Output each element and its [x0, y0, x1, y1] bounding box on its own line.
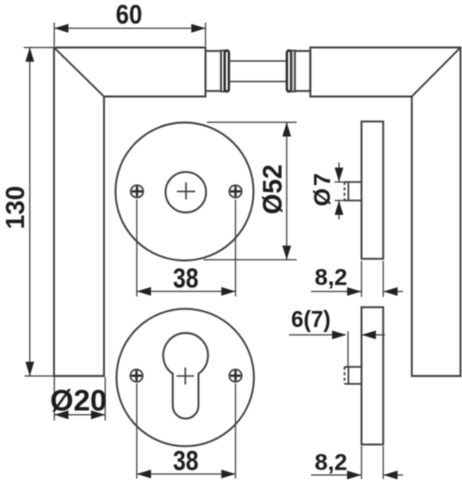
lower side-view spindle stub: [345, 367, 362, 384]
lower left screw: [130, 370, 142, 382]
arrowheads 38 upper: [137, 287, 151, 296]
svg-text:60: 60: [116, 0, 143, 30]
dimension Ø7 lines: [335, 163, 347, 220]
left lever (top view outline): [54, 48, 206, 377]
left neck collar: [206, 51, 222, 91]
upper side-view plate: [362, 122, 384, 259]
arrowheads 38 lower: [137, 470, 151, 479]
svg-text:38: 38: [173, 445, 199, 476]
arrowheads Ø20: [54, 410, 68, 419]
left ring 2 (dark flange): [225, 51, 229, 92]
dimension 38 lower lines: [137, 384, 236, 479]
arrowheads 60: [54, 24, 68, 33]
svg-text:130: 130: [0, 186, 30, 229]
svg-text:8,2: 8,2: [315, 449, 348, 475]
arrowheads 8,2 lower: [347, 471, 361, 480]
dimension 60 lines: [54, 23, 205, 47]
dimension 38 upper lines: [137, 200, 236, 297]
upper left screw: [131, 185, 143, 197]
arrowheads Ø52: [282, 122, 291, 136]
upper hub cross: [177, 182, 195, 199]
lower rosette cross: [177, 368, 195, 385]
lower side-view plate: [362, 307, 384, 444]
arrowheads Ø7: [335, 168, 344, 182]
dimension 8,2 lower lines: [311, 446, 403, 479]
right ring 1: [292, 51, 295, 92]
arrowheads 8,2 upper: [347, 287, 361, 296]
right lever (top view outline): [310, 48, 460, 377]
lower rosette circle: [117, 309, 254, 446]
dimension Ø52 lines: [204, 122, 297, 259]
svg-text:8,2: 8,2: [315, 264, 348, 290]
right ring 2 (dark flange): [287, 51, 291, 92]
svg-text:Ø52: Ø52: [258, 164, 288, 214]
svg-text:Ø20: Ø20: [50, 385, 107, 418]
dimension 130 lines: [24, 48, 53, 377]
svg-text:6(7): 6(7): [291, 306, 331, 332]
svg-text:Ø7: Ø7: [309, 171, 335, 206]
lower rosette euro profile cutout: [163, 333, 208, 419]
upper rosette circle: [116, 123, 254, 261]
upper rosette hub: [166, 172, 207, 213]
arrowheads 130: [25, 48, 34, 62]
svg-text:38: 38: [173, 263, 199, 294]
arrowheads 6(7): [332, 331, 346, 340]
upper side-view spindle stub: [345, 182, 362, 201]
spindle: [229, 61, 287, 82]
dimension Ø20 lines: [54, 377, 105, 421]
lower right screw: [229, 370, 241, 382]
dimension 8,2 upper lines: [311, 261, 403, 297]
upper right screw: [229, 185, 241, 197]
left ring 1: [221, 51, 224, 92]
right neck collar: [295, 51, 311, 91]
dimension 6(7) lines: [289, 331, 385, 366]
